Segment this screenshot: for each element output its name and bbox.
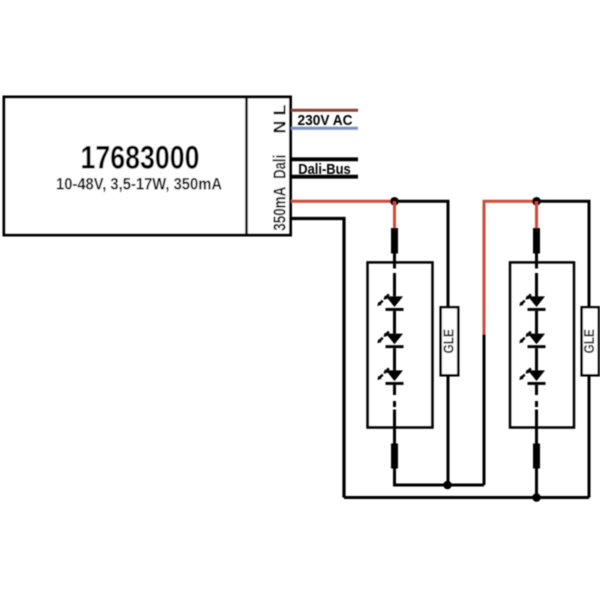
wire Dali bus lower — [291, 175, 358, 179]
wire module1 feed to GLE1 — [395, 201, 449, 306]
svg-text:17683000: 17683000 — [81, 140, 200, 176]
svg-text:GLE: GLE — [582, 329, 598, 354]
wire into LED module 2 (dashed near edges) — [535, 254, 538, 297]
wire between LED 2b and 2c — [535, 348, 538, 370]
connector block module1 top — [391, 228, 398, 254]
wire between LED 1b and 1c — [393, 348, 396, 370]
wire module2 bottom lead — [535, 469, 538, 498]
wire GLE2 lower lead — [588, 377, 591, 498]
GLE2 unit box — [582, 307, 599, 375]
node junction module 2 feed — [532, 197, 541, 206]
wire N (mains neutral) — [291, 127, 358, 130]
connector block module2 top — [533, 228, 540, 254]
wire into LED module 1 (dashed near edges) — [393, 254, 396, 297]
svg-text:230V AC: 230V AC — [298, 112, 353, 129]
wire GLE1 lower lead — [447, 377, 450, 486]
node junction module 1 feed — [390, 197, 399, 206]
connector block module1 bottom — [391, 444, 398, 469]
wire red drop to module 2 — [535, 201, 538, 228]
svg-text:Dali: Dali — [270, 155, 290, 179]
LED 2c — [519, 368, 545, 385]
wire 350mA+ output (red) — [291, 200, 395, 203]
LED 2b — [519, 332, 545, 349]
LED 1c — [377, 368, 403, 385]
wire red drop to module 1 — [393, 201, 396, 228]
wire between LED 2a and 2b — [535, 311, 538, 334]
svg-text:N: N — [270, 121, 290, 134]
svg-text:L: L — [270, 104, 290, 115]
GLE1 unit box — [441, 307, 459, 375]
LED module 2 outline — [510, 262, 574, 427]
wire out of LED module 1 (dashed near edge) — [393, 385, 396, 444]
wire Dali bus upper — [291, 157, 358, 161]
terminal strip divider line — [245, 96, 248, 236]
LED 1b — [377, 332, 403, 349]
wire riser module1 to module2 black part — [483, 335, 486, 486]
LED 1a — [377, 294, 403, 311]
wire L (mains live) — [291, 109, 358, 112]
svg-text:10-48V, 3,5-17W, 350mA: 10-48V, 3,5-17W, 350mA — [56, 175, 222, 194]
connector block module2 bottom — [533, 444, 540, 469]
wire out of LED module 2 (dashed near edge) — [535, 385, 538, 444]
wire module2 feed to GLE2 — [537, 201, 590, 306]
wire module1 bottom link — [395, 469, 485, 486]
node junction GLE1 bottom — [443, 481, 452, 490]
node junction module2 bottom — [532, 493, 541, 502]
LED driver U1 box outline — [4, 97, 291, 235]
svg-text:350mA: 350mA — [270, 186, 290, 230]
wire return from driver (black) — [291, 219, 344, 498]
LED 2a — [519, 294, 545, 311]
wire riser module1 to module2 red part — [484, 201, 537, 334]
LED module 1 outline — [368, 262, 433, 427]
wire bottom return bus — [344, 496, 589, 499]
svg-text:GLE: GLE — [442, 329, 458, 354]
wire between LED 1a and 1b — [393, 311, 396, 334]
